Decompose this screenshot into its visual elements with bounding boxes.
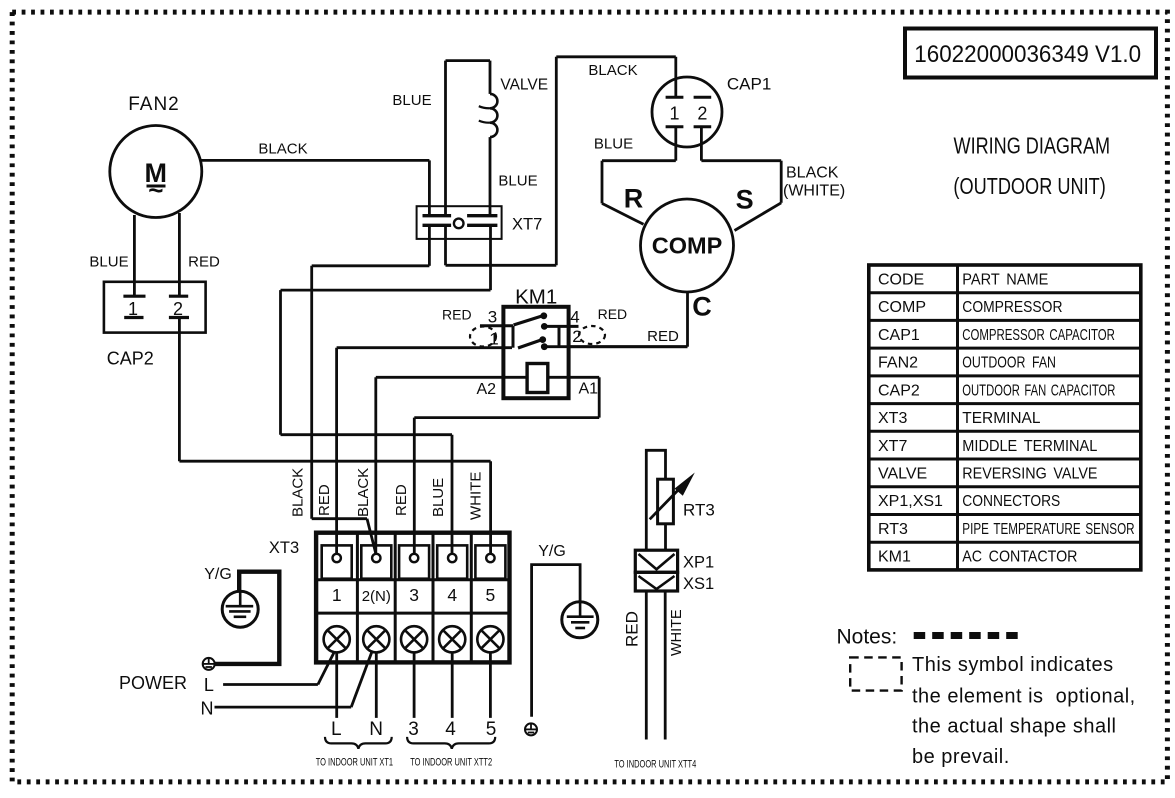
svg-text:RT3: RT3 (683, 501, 715, 520)
svg-text:CAP2: CAP2 (878, 382, 920, 399)
svg-text:WHITE: WHITE (669, 609, 685, 656)
svg-text:(OUTDOOR UNIT): (OUTDOOR UNIT) (953, 174, 1105, 200)
svg-text:XT3: XT3 (878, 410, 907, 427)
svg-text:CODE: CODE (878, 272, 924, 289)
svg-text:3: 3 (408, 719, 419, 740)
svg-text:RED: RED (623, 611, 642, 647)
svg-text:5: 5 (486, 719, 497, 740)
svg-text:COMP: COMP (652, 233, 723, 259)
svg-text:BLUE: BLUE (498, 173, 537, 190)
svg-text:Y/G: Y/G (538, 543, 566, 560)
svg-text:VALVE: VALVE (878, 466, 927, 483)
svg-text:L: L (331, 719, 342, 740)
svg-text:VALVE: VALVE (500, 77, 548, 94)
svg-text:4: 4 (570, 308, 579, 327)
svg-text:WIRING DIAGRAM: WIRING DIAGRAM (954, 133, 1111, 159)
svg-text:KM1: KM1 (878, 549, 911, 566)
svg-text:KM1: KM1 (515, 286, 557, 309)
svg-text:RED: RED (316, 484, 333, 516)
svg-text:3: 3 (409, 585, 419, 605)
svg-text:N: N (201, 699, 214, 719)
svg-text:BLACK: BLACK (355, 468, 372, 517)
svg-text:BLACK: BLACK (290, 468, 307, 517)
svg-text:BLUE: BLUE (89, 254, 128, 271)
svg-text:2: 2 (572, 327, 581, 346)
svg-text:be prevail.: be prevail. (912, 746, 1010, 768)
svg-text:CAP1: CAP1 (878, 327, 920, 344)
svg-text:the actual shape shall: the actual shape shall (912, 716, 1116, 738)
svg-text:XP1: XP1 (683, 554, 714, 572)
svg-text:REVERSING VALVE: REVERSING VALVE (962, 465, 1097, 483)
svg-text:BLACK: BLACK (588, 62, 637, 79)
svg-text:FAN2: FAN2 (878, 355, 918, 372)
svg-text:BLUE: BLUE (594, 135, 633, 152)
svg-text:5: 5 (486, 585, 496, 605)
svg-text:A1: A1 (579, 381, 599, 398)
svg-text:MIDDLE TERMINAL: MIDDLE TERMINAL (962, 437, 1097, 455)
svg-text:L: L (204, 675, 214, 695)
svg-text:WHITE: WHITE (468, 472, 485, 520)
svg-text:2: 2 (173, 299, 183, 319)
svg-text:COMPRESSOR: COMPRESSOR (962, 298, 1062, 316)
svg-text:RED: RED (647, 328, 679, 345)
svg-text:(WHITE): (WHITE) (783, 183, 845, 200)
svg-text:RED: RED (393, 484, 410, 516)
svg-text:TO INDOOR UNIT XTT2: TO INDOOR UNIT XTT2 (410, 755, 492, 768)
svg-text:OUTDOOR FAN CAPACITOR: OUTDOOR FAN CAPACITOR (962, 380, 1115, 399)
svg-text:AC CONTACTOR: AC CONTACTOR (962, 548, 1077, 566)
svg-text:RED: RED (598, 306, 628, 322)
svg-text:BLACK: BLACK (258, 141, 307, 158)
svg-text:1: 1 (489, 330, 498, 349)
svg-text:OUTDOOR FAN: OUTDOOR FAN (962, 354, 1056, 372)
svg-text:A2: A2 (477, 381, 497, 398)
svg-text:16022000036349 V1.0: 16022000036349 V1.0 (914, 40, 1141, 67)
svg-text:2(N): 2(N) (362, 588, 391, 605)
svg-text:TO INDOOR UNIT XTT4: TO INDOOR UNIT XTT4 (614, 757, 696, 770)
svg-text:XT7: XT7 (512, 216, 542, 234)
svg-text:BLUE: BLUE (392, 92, 431, 109)
svg-text:XS1: XS1 (683, 575, 714, 593)
svg-text:the element is optional,: the element is optional, (912, 686, 1136, 708)
svg-text:FAN2: FAN2 (128, 94, 180, 115)
svg-text:XT3: XT3 (269, 539, 299, 557)
svg-text:COMPRESSOR CAPACITOR: COMPRESSOR CAPACITOR (962, 325, 1115, 343)
svg-text:TERMINAL: TERMINAL (962, 410, 1040, 427)
svg-text:N: N (369, 719, 383, 740)
svg-text:POWER: POWER (119, 673, 187, 693)
svg-text:4: 4 (445, 719, 456, 740)
svg-text:TO INDOOR UNIT XT1: TO INDOOR UNIT XT1 (316, 755, 393, 768)
svg-text:CONNECTORS: CONNECTORS (962, 492, 1060, 510)
svg-text:1: 1 (669, 104, 679, 124)
svg-text:COMP: COMP (878, 299, 926, 316)
svg-text:XP1,XS1: XP1,XS1 (878, 493, 943, 510)
svg-text:BLACK: BLACK (786, 165, 839, 182)
svg-text:PART NAME: PART NAME (962, 271, 1048, 289)
svg-text:2: 2 (697, 104, 707, 124)
svg-text:S: S (736, 185, 754, 215)
svg-text:CAP2: CAP2 (107, 349, 154, 369)
svg-text:1: 1 (332, 585, 342, 605)
svg-text:BLUE: BLUE (430, 478, 447, 517)
svg-text:XT7: XT7 (878, 438, 907, 455)
svg-text:R: R (624, 184, 644, 214)
svg-text:This symbol indicates: This symbol indicates (912, 654, 1114, 676)
svg-text:RED: RED (188, 254, 220, 271)
svg-text:Y/G: Y/G (204, 566, 232, 583)
svg-text:RT3: RT3 (878, 521, 908, 538)
svg-text:PIPE TEMPERATURE SENSOR: PIPE TEMPERATURE SENSOR (962, 519, 1134, 537)
svg-text:CAP1: CAP1 (727, 75, 771, 94)
svg-text:Notes:: Notes: (837, 626, 898, 649)
svg-text:3: 3 (488, 308, 497, 327)
svg-text:RED: RED (442, 307, 472, 323)
svg-text:1: 1 (128, 299, 138, 319)
svg-text:4: 4 (447, 585, 457, 605)
svg-text:C: C (692, 292, 712, 322)
svg-text:~: ~ (148, 175, 163, 205)
